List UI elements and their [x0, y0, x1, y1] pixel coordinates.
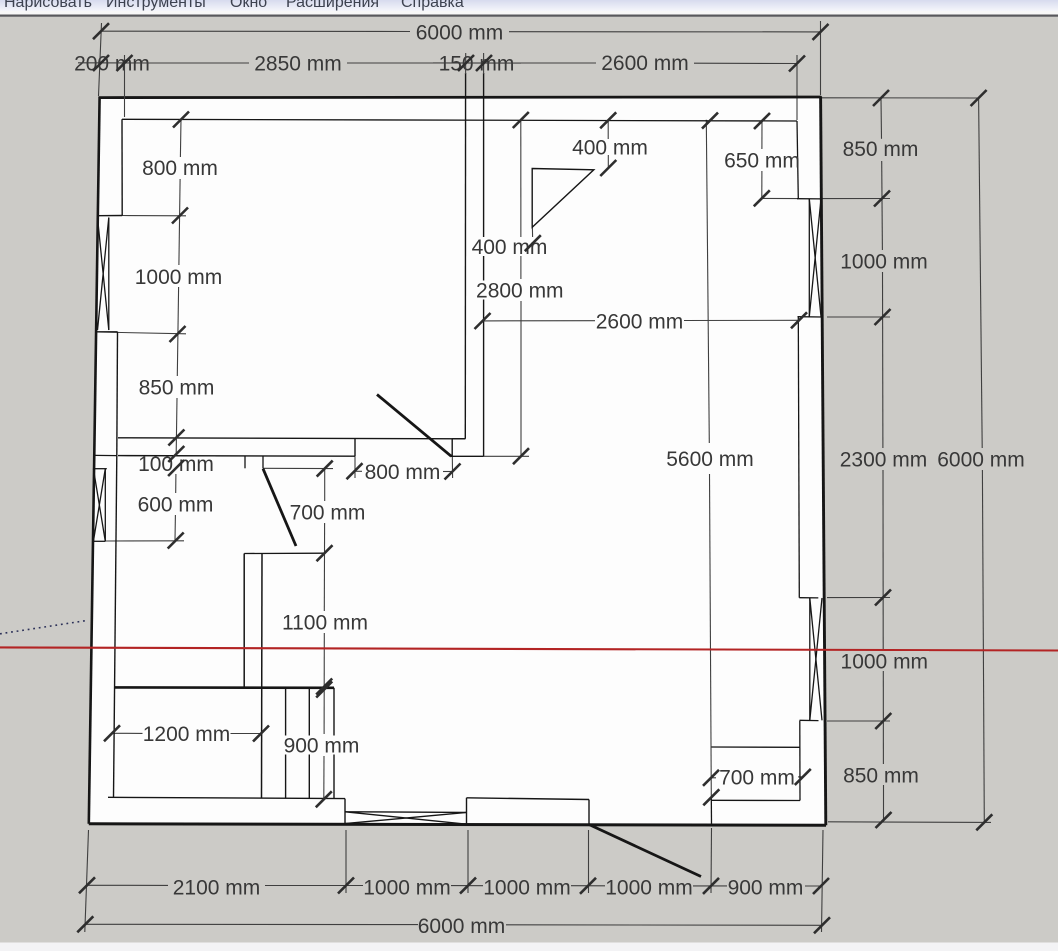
- label 850 right top: [842, 139, 920, 159]
- svg-text:2600 mm: 2600 mm: [596, 311, 684, 334]
- left window1 X: [98, 218, 109, 331]
- ext line top-left corner: [99, 23, 102, 96]
- dim row A line 6000mm top: [101, 30, 410, 32]
- svg-text:1000 mm: 1000 mm: [363, 876, 451, 899]
- svg-text:1200 mm: 1200 mm: [143, 723, 231, 746]
- dim line through 150mm label: [433, 62, 521, 64]
- label 2100 bottom: [168, 877, 265, 897]
- 2600mm interior dim line: [483, 320, 596, 322]
- svg-text:800 mm: 800 mm: [365, 461, 441, 484]
- door swing hallway: [263, 469, 296, 546]
- plan interior white floor: [89, 97, 826, 825]
- ext line inner-right: [796, 55, 798, 120]
- svg-text:6000 mm: 6000 mm: [416, 22, 504, 45]
- right window1 head: [797, 198, 822, 200]
- stair right edge: [333, 688, 335, 799]
- label 700 bottom-right: [717, 768, 797, 787]
- tick 5600 bottom: [703, 789, 719, 805]
- blue dotted guide: [0, 620, 88, 634]
- svg-text:Нарисовать: Нарисовать: [4, 0, 92, 11]
- left window2 head: [93, 468, 107, 470]
- status bar strip bottom: [0, 943, 1058, 951]
- ticks right col1: [873, 90, 889, 106]
- label 5600: [666, 449, 755, 468]
- label 650: [723, 151, 796, 170]
- svg-text:850 mm: 850 mm: [843, 764, 919, 787]
- right horizontal ext bottom: [828, 821, 991, 824]
- svg-text:650 mm: 650 mm: [724, 150, 800, 173]
- bottom dim row2 6000: [85, 923, 418, 925]
- left pier2 bottom: [96, 454, 117, 456]
- ticks bottom row2: [77, 916, 93, 932]
- label 900 stairs: [283, 736, 360, 755]
- right window1 sill: [798, 316, 823, 318]
- tick 400 top: [600, 160, 616, 176]
- svg-text:1000 mm: 1000 mm: [483, 877, 571, 900]
- label 1200: [143, 724, 231, 743]
- stair tread 1: [285, 688, 287, 798]
- 900mm dim line: [323, 690, 325, 735]
- 700mm bottom-right dim line: [712, 777, 717, 779]
- 400mm#2 stub: [531, 227, 533, 238]
- 2800 bottom ext: [484, 455, 529, 457]
- outer wall left: [89, 97, 100, 824]
- bottom dim row1: [87, 884, 170, 886]
- dim line through 200mm label: [78, 62, 150, 64]
- bottom pier top: [467, 798, 590, 800]
- left pier1 bottom: [98, 215, 122, 217]
- ticks right col2: [971, 90, 987, 106]
- counter band end: [354, 438, 356, 456]
- dim row B line 200/2850/150/2600: [150, 62, 249, 64]
- hallway wall top: [244, 552, 324, 554]
- ticks 2600 interior: [475, 313, 491, 329]
- door stub left: [244, 456, 246, 469]
- left window2 sill: [93, 540, 106, 542]
- triangle symbol: [532, 169, 594, 228]
- label 1000 bottom b: [483, 877, 571, 897]
- bottom window head: [345, 811, 467, 814]
- svg-text:2600 mm: 2600 mm: [601, 52, 689, 75]
- label 2850: [249, 53, 347, 73]
- label 6000 bottom: [418, 916, 506, 936]
- hallway wall left: [243, 554, 245, 689]
- svg-text:900 mm: 900 mm: [284, 735, 360, 758]
- 1200mm dim line: [112, 732, 143, 734]
- tick 900 bottom: [316, 791, 332, 807]
- svg-text:1000 mm: 1000 mm: [135, 266, 223, 289]
- left window2 frame: [104, 469, 106, 542]
- right wall inner face top: [797, 121, 798, 199]
- bottom window right closure: [466, 798, 468, 824]
- svg-text:850 mm: 850 mm: [843, 138, 919, 161]
- ticks row A: [93, 23, 109, 39]
- right horizontal ext 317: [827, 316, 890, 318]
- 5600mm dim line: [706, 120, 709, 443]
- door swing bottom: [589, 825, 701, 877]
- right window1 X: [809, 199, 821, 317]
- ext at 215: [122, 215, 186, 217]
- 400mm top stub: [607, 120, 609, 139]
- label 800 room: [363, 462, 443, 481]
- tick 2800 bottom: [513, 448, 529, 464]
- svg-text:1000 mm: 1000 mm: [841, 651, 929, 674]
- 800mm room dim line: [355, 470, 363, 472]
- right window2 frame: [809, 598, 811, 720]
- label 100 left: [137, 457, 216, 472]
- label 2600 top: [596, 53, 694, 73]
- ticks left column: [172, 208, 188, 224]
- 700mm hall top ext: [263, 467, 333, 469]
- right pier mid inner face: [798, 317, 799, 598]
- label 2800: [476, 281, 564, 300]
- counter band top: [118, 438, 465, 439]
- label 700 hall: [288, 503, 367, 522]
- label 1000 bottom a: [363, 877, 451, 897]
- label 1000 right low: [840, 651, 929, 671]
- 1100mm dim line: [323, 553, 325, 611]
- 800mm room ext stubs: [354, 456, 356, 478]
- right window2 head: [799, 597, 818, 599]
- label 600 left: [136, 495, 215, 514]
- svg-text:1100 mm: 1100 mm: [282, 612, 368, 635]
- label 2300 right: [839, 449, 929, 469]
- outer wall bottom: [89, 824, 826, 826]
- left pier1 inner edge: [121, 119, 123, 215]
- ticks 1200: [104, 725, 120, 741]
- right col2 dim line 6000: [979, 98, 983, 448]
- right horizontal ext 721: [827, 720, 890, 722]
- counter band bottom: [118, 455, 355, 458]
- right window2 X: [810, 598, 822, 720]
- ticks row B: [93, 55, 109, 71]
- ext at 333: [97, 332, 187, 334]
- left pier2 inner edge: [116, 332, 119, 456]
- label 1000 bottom c: [605, 877, 693, 897]
- ticks bottom row1: [79, 877, 95, 893]
- label 850 right low: [842, 765, 920, 785]
- left window2 X: [93, 469, 105, 542]
- svg-text:2300 mm: 2300 mm: [840, 449, 928, 472]
- label 400 #2: [470, 237, 549, 256]
- label 900 bottom: [727, 877, 805, 897]
- left lower inner face: [114, 456, 117, 798]
- right horizontal ext top: [822, 97, 979, 99]
- red axis line: [0, 647, 1058, 650]
- label 6000 top: [412, 23, 507, 43]
- right horizontal ext 597: [827, 597, 890, 599]
- svg-text:1000 mm: 1000 mm: [605, 877, 693, 900]
- 700mm hall dim line: [324, 469, 326, 501]
- label 1000 left: [135, 267, 223, 286]
- outer wall right: [821, 96, 826, 825]
- svg-text:100 mm: 100 mm: [138, 453, 214, 476]
- svg-text:700 mm: 700 mm: [719, 767, 795, 790]
- tick 1100 bottom: [316, 679, 332, 695]
- tick 900 top: [316, 682, 332, 698]
- right window2 sill: [800, 719, 819, 721]
- 2800mm dim line: [520, 120, 522, 279]
- svg-text:6000 mm: 6000 mm: [418, 915, 506, 938]
- door jamb right / 5600 ext: [710, 797, 712, 824]
- right window1 frame: [808, 199, 810, 317]
- right horizontal ext 198: [822, 198, 890, 200]
- outer wall top: [99, 96, 822, 99]
- label 1100: [281, 613, 369, 632]
- svg-text:2850 mm: 2850 mm: [254, 53, 342, 76]
- ticks 700 bottom-right: [703, 770, 719, 786]
- partition bottom: [451, 455, 484, 457]
- svg-text:2800 mm: 2800 mm: [476, 280, 564, 303]
- svg-text:Окно: Окно: [230, 0, 267, 11]
- svg-text:Инструменты: Инструменты: [106, 0, 206, 11]
- svg-text:2100 mm: 2100 mm: [173, 876, 261, 899]
- bottom pier right edge / door jamb: [588, 800, 590, 825]
- partition ext through 150mm label: [465, 53, 467, 74]
- ext at 541: [105, 540, 184, 542]
- bottom wall inner face left: [108, 797, 345, 798]
- ticks 800 room: [347, 463, 363, 479]
- label 1000 right top: [840, 251, 929, 271]
- left window1 frame: [108, 218, 110, 331]
- svg-text:Справка: Справка: [401, 0, 464, 11]
- ticks 700 hall: [317, 461, 333, 477]
- ext line inner-left: [124, 55, 126, 117]
- label 200: [74, 53, 150, 73]
- tick 400 #2: [525, 235, 541, 251]
- top wall inner face: [122, 119, 797, 121]
- bottom window left closure: [344, 799, 346, 824]
- svg-text:200 mm: 200 mm: [74, 53, 150, 76]
- stair tread 2: [308, 688, 310, 798]
- partition right face: [483, 55, 485, 456]
- label 6000 right: [937, 449, 1027, 469]
- left window1 sill bottom / pier2 top: [97, 331, 118, 333]
- svg-text:800 mm: 800 mm: [142, 157, 218, 180]
- svg-text:900 mm: 900 mm: [728, 877, 804, 900]
- hallway wall right: [261, 554, 264, 799]
- bottom ext verticals: [85, 830, 89, 932]
- door swing room1: [377, 395, 451, 457]
- 650 bottom ext: [762, 197, 798, 199]
- svg-text:5600 mm: 5600 mm: [666, 448, 754, 471]
- right wall inner low: [799, 721, 801, 801]
- label 850 left: [137, 378, 216, 397]
- partition left face: [464, 55, 466, 439]
- lower band: [114, 686, 334, 689]
- bottom window X: [345, 812, 467, 824]
- svg-text:6000 mm: 6000 mm: [937, 449, 1025, 472]
- bottom inner face right: [712, 799, 801, 801]
- svg-text:150 mm: 150 mm: [439, 53, 515, 76]
- label 150: [438, 53, 515, 73]
- tick 650: [754, 190, 770, 206]
- right col1 dim line 850/1000/2300/1000/850: [880, 98, 883, 139]
- svg-text:1000 mm: 1000 mm: [840, 251, 928, 274]
- label 800 left: [141, 158, 220, 177]
- left column dim line: [179, 120, 182, 158]
- svg-text:400 mm: 400 mm: [572, 136, 648, 159]
- closet top: [712, 746, 801, 748]
- svg-text:700 mm: 700 mm: [290, 502, 366, 525]
- svg-text:850 mm: 850 mm: [139, 377, 215, 400]
- ext line top-right corner: [820, 21, 822, 95]
- 650mm dim line: [761, 121, 763, 149]
- partition notch: [452, 438, 465, 440]
- label 2600 interior: [596, 312, 684, 331]
- svg-text:600 mm: 600 mm: [138, 494, 214, 517]
- svg-text:Расширения: Расширения: [286, 0, 379, 11]
- ticks top inner face: [173, 112, 189, 128]
